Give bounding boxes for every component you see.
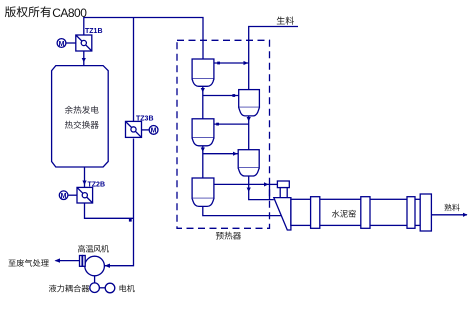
junction dot xyxy=(129,219,132,222)
flow arrow xyxy=(82,58,86,63)
coupling link wire xyxy=(99,287,105,289)
flow arrow xyxy=(247,117,251,122)
smoke chamber cap xyxy=(277,181,289,188)
label 预热器 xyxy=(216,232,241,240)
wire riser down leg xyxy=(269,184,271,199)
duct riser to C2 inlet xyxy=(203,95,239,97)
label 高温风机 xyxy=(78,245,109,253)
wire C4 dip to kiln inlet xyxy=(249,176,274,200)
flow arrow xyxy=(264,182,269,186)
wire TZ1B to heat exchanger vessel xyxy=(83,51,85,66)
wire top header from valve TZ1B to cyclone C1 xyxy=(84,18,203,60)
svg-text:TZ3B: TZ3B xyxy=(136,115,154,122)
duct C5 gas outlet xyxy=(214,183,270,185)
wire fan to coupling xyxy=(94,276,96,283)
flow arrow xyxy=(463,213,468,217)
motor circle 电机 xyxy=(105,283,115,293)
svg-text:CA800: CA800 xyxy=(52,6,87,20)
kiln support ring 3 xyxy=(407,197,415,229)
label 电机 xyxy=(120,285,135,293)
cyclone C4 xyxy=(238,150,259,176)
preheater dashed enclosure xyxy=(177,40,270,228)
duct C3 gas outlet to riser xyxy=(214,123,249,125)
svg-text:M: M xyxy=(59,41,65,48)
svg-text:TZ2B: TZ2B xyxy=(88,181,106,188)
junction dot xyxy=(217,62,220,65)
flow arrow xyxy=(55,258,61,262)
wire riser to smoke chamber cap xyxy=(270,183,278,185)
wire C5 dip to kiln inlet chute xyxy=(203,206,282,215)
damper valve TZ2B xyxy=(77,187,93,203)
motor of valve TZ2B xyxy=(59,191,77,200)
flow arrow into fan xyxy=(105,264,111,268)
svg-text:M: M xyxy=(151,128,157,135)
high temperature fan 高温风机 xyxy=(85,256,105,276)
wire branch down to valve TZ3B xyxy=(133,18,135,122)
wire vessel outlet to TZ2B xyxy=(84,167,86,187)
damper valve TZ1B xyxy=(76,35,92,51)
wire TZ3B down to fan inlet xyxy=(104,139,133,266)
flow arrow xyxy=(201,148,205,153)
duct C1 gas outlet to riser xyxy=(214,62,249,64)
kiln label 水泥窑 xyxy=(332,210,356,218)
damper valve TZ3B xyxy=(126,121,142,137)
wire C2 dip to C4 xyxy=(248,116,250,150)
fan outlet flange xyxy=(80,256,86,267)
kiln outlet end block xyxy=(420,194,431,231)
wire TZ2B to fan duct xyxy=(85,203,134,218)
label 生料 xyxy=(277,16,294,24)
kiln support ring 2 xyxy=(361,197,370,229)
svg-text:M: M xyxy=(61,193,67,200)
clinker outlet wire xyxy=(431,214,467,216)
wire C3 dip to C5 xyxy=(202,146,204,178)
junction dot xyxy=(216,123,219,126)
junction dot xyxy=(232,94,235,97)
motor of valve TZ1B xyxy=(57,39,76,48)
label 熟料 xyxy=(444,204,459,211)
smoke chamber with inclined chute xyxy=(274,198,291,230)
copyright text 版权所有CA800 xyxy=(5,6,87,20)
cyclone C1 xyxy=(192,59,214,86)
raw meal feed wire 生料 xyxy=(249,27,298,90)
waste-heat power generation heat exchanger vessel xyxy=(52,66,109,167)
hydraulic coupling circle xyxy=(90,283,100,293)
duct riser to C4 inlet xyxy=(203,153,238,155)
flow arrow xyxy=(244,61,249,65)
flow arrow xyxy=(233,152,238,156)
kiln support ring 1 xyxy=(311,197,320,229)
rotary kiln tube 水泥窑 xyxy=(291,199,420,225)
smoke chamber neck xyxy=(280,188,287,198)
label 液力耦合器 xyxy=(49,285,89,293)
exhaust wire to gas treatment xyxy=(56,260,80,262)
wire C1 dip to C3 xyxy=(202,86,204,119)
flow arrow xyxy=(201,88,205,93)
cyclone C3 xyxy=(192,119,214,146)
vessel label line1 余热发电 xyxy=(65,106,99,114)
cyclone C5 xyxy=(192,178,214,206)
vessel label line2 热交换器 xyxy=(65,121,99,129)
label 至废气处理 xyxy=(8,259,48,267)
motor of valve TZ3B xyxy=(142,125,159,134)
flow arrow xyxy=(247,188,251,193)
flow arrow xyxy=(82,181,86,186)
svg-text:TZ1B: TZ1B xyxy=(85,28,103,35)
cyclone C2 xyxy=(239,90,260,116)
